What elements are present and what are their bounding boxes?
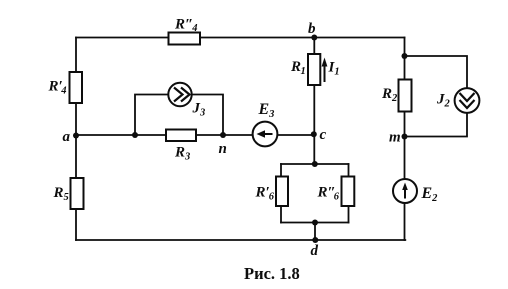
- svg-text:J3: J3: [192, 101, 206, 119]
- svg-text:b: b: [308, 21, 316, 37]
- wire J3 branch: [135, 95, 223, 136]
- node c: [311, 131, 317, 137]
- node b: [311, 35, 317, 41]
- node junction right rail top: [402, 53, 408, 59]
- svg-text:R″4: R″4: [174, 17, 198, 35]
- svg-text:a: a: [63, 129, 71, 145]
- svg-text:R2: R2: [381, 86, 398, 104]
- svg-text:R′4: R′4: [48, 79, 67, 97]
- wire R6 block left: [280, 164, 282, 223]
- wire top rail b: [76, 37, 405, 39]
- svg-text:J2: J2: [436, 92, 451, 110]
- current source J3: [168, 83, 191, 106]
- svg-text:I1: I1: [328, 60, 340, 78]
- voltage source E3: [253, 122, 278, 147]
- svg-text:R3: R3: [174, 145, 190, 163]
- current source J2: [455, 88, 480, 113]
- node n: [220, 132, 226, 138]
- svg-text:m: m: [389, 130, 401, 146]
- svg-text:R1: R1: [290, 59, 306, 77]
- node junction left of R3: [132, 132, 138, 138]
- resistor R''4: [169, 33, 201, 45]
- wire left rail: [75, 38, 77, 241]
- wire middle a-n-c: [76, 134, 314, 136]
- resistor R''6: [342, 177, 355, 207]
- resistor R1: [308, 54, 320, 85]
- svg-text:n: n: [219, 141, 227, 157]
- svg-text:c: c: [320, 127, 327, 143]
- wire R6 block bottom rail: [281, 222, 349, 224]
- resistor R'6: [276, 177, 288, 207]
- wire right rail: [404, 38, 406, 241]
- svg-text:d: d: [311, 243, 319, 259]
- node R6 block bottom: [312, 220, 318, 226]
- svg-text:E3: E3: [258, 101, 275, 120]
- wire R6 block top rail: [281, 163, 349, 165]
- wire bottom rail: [76, 239, 405, 241]
- voltage source E2: [393, 179, 417, 203]
- resistor R5: [71, 178, 84, 209]
- svg-text:R″6: R″6: [317, 185, 340, 203]
- wire d stub: [314, 223, 316, 241]
- current arrow I1: [322, 58, 328, 83]
- resistor R3: [166, 130, 196, 142]
- svg-text:E2: E2: [421, 185, 439, 204]
- wire R6 block right: [348, 164, 350, 223]
- svg-text:Рис. 1.8: Рис. 1.8: [244, 264, 300, 283]
- node R6 block top: [312, 161, 318, 167]
- wire J2 branch: [405, 56, 468, 137]
- resistor R2: [399, 80, 412, 112]
- node m: [402, 134, 408, 140]
- svg-text:R5: R5: [53, 185, 69, 203]
- node d: [312, 237, 318, 243]
- svg-text:R′6: R′6: [255, 185, 275, 203]
- node a: [73, 133, 79, 139]
- resistor R'4: [70, 72, 83, 103]
- wire b-c vertical: [313, 38, 315, 165]
